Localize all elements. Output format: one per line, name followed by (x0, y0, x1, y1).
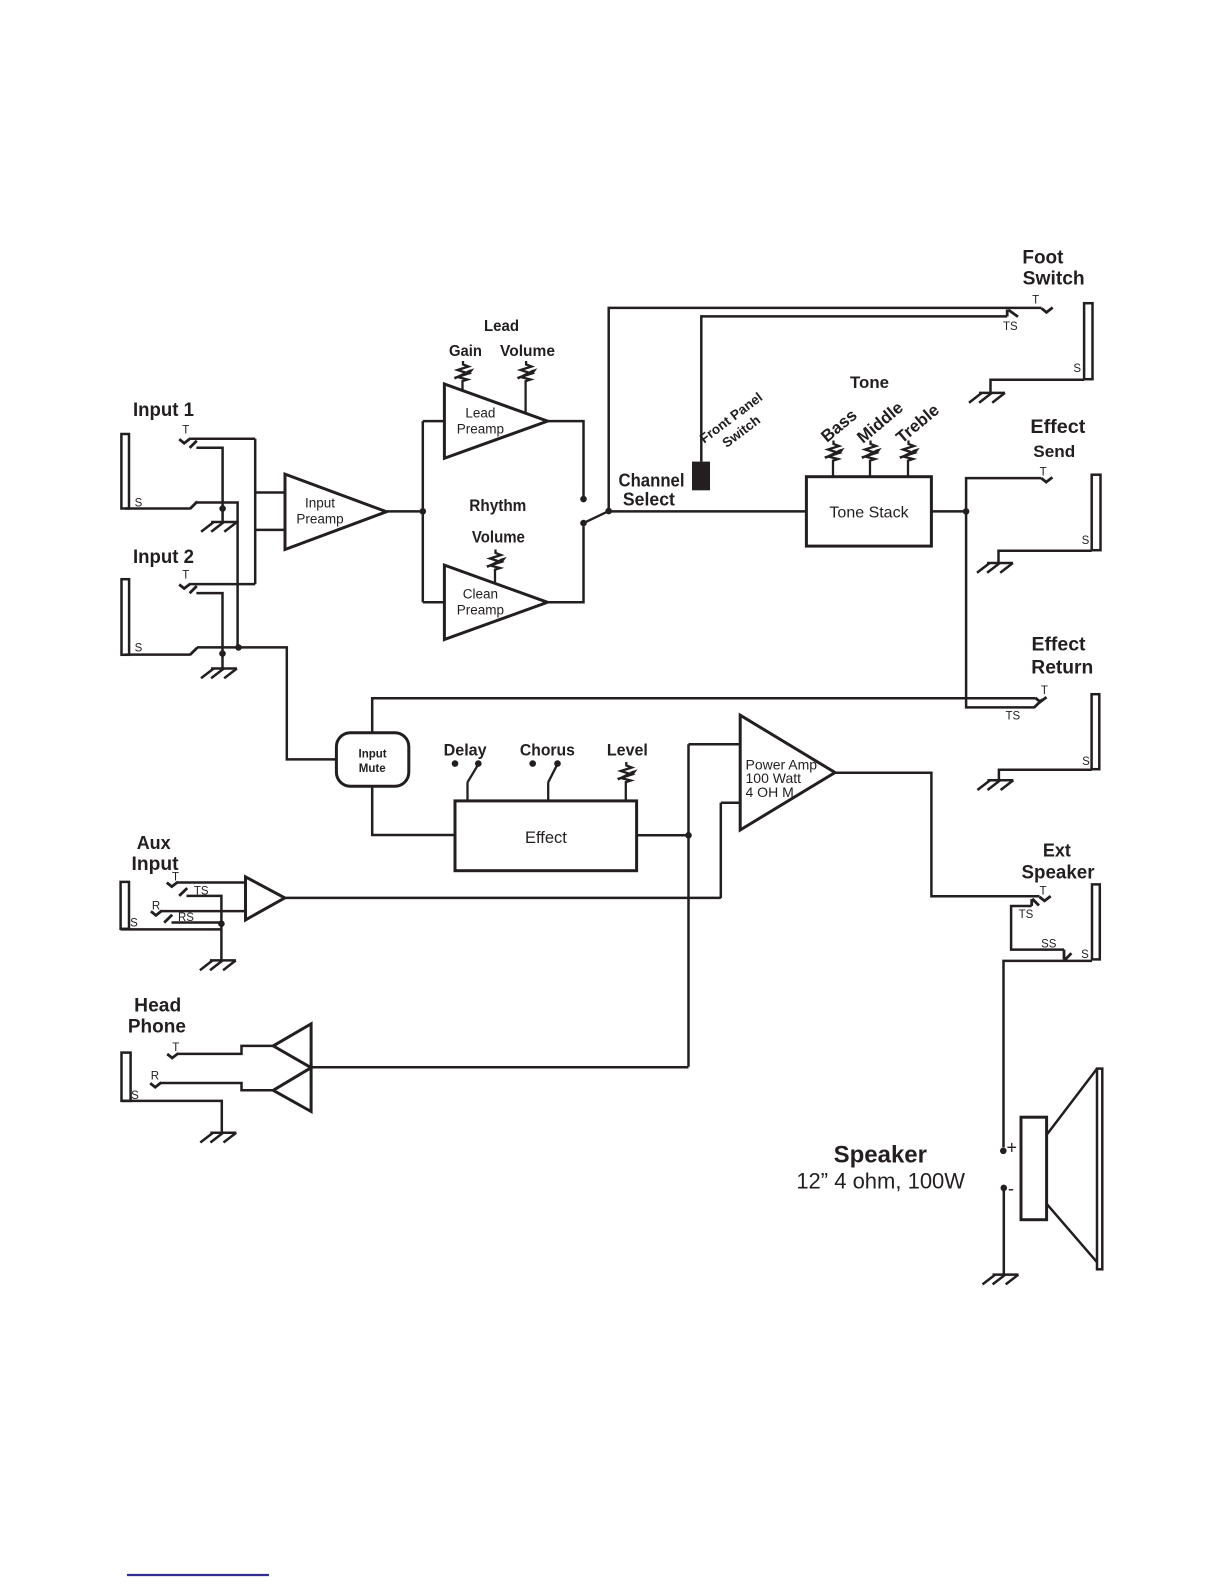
svg-text:TS: TS (1019, 909, 1034, 921)
wire channel select to foot switch tip (609, 308, 1042, 511)
wire effect return tip to input mute (372, 698, 1035, 733)
wire power amp in upper (689, 743, 741, 746)
svg-text:Phone: Phone (128, 1017, 186, 1038)
svg-text:Return: Return (1031, 658, 1093, 679)
svg-text:Volume: Volume (500, 343, 555, 360)
op-amp U4 power amp (740, 715, 835, 830)
wire effect out (637, 834, 689, 837)
switch SW3 chorus contact right (554, 760, 561, 767)
wire J1 tip shunt to ground (196, 448, 222, 509)
wire J1 sleeve (125, 507, 190, 510)
contact hook J3 tip (1042, 308, 1053, 313)
wire power amp in lower (721, 801, 740, 804)
wire J6 tip to aux amp (178, 881, 246, 884)
potentiometer R lead volume (518, 361, 534, 413)
wire signal bus vertical (687, 744, 690, 1067)
contact hook J7 ring (150, 1082, 161, 1087)
wire J2 sleeve switch to input mute (197, 647, 336, 759)
svg-text:Select: Select (623, 490, 675, 510)
switch SW1 channel select contact upper (580, 496, 587, 503)
svg-text:Input 1: Input 1 (133, 400, 194, 421)
wire speaker minus to ground (1003, 1191, 1006, 1275)
potentiometer R rhythm volume (487, 550, 503, 584)
op-amp U3 clean preamp (444, 565, 547, 639)
wire aux bus vertical (720, 803, 723, 898)
wire aux amp out (285, 897, 721, 900)
wire J6 sleeve (121, 928, 222, 931)
junction J1 sleeve-ground (219, 505, 226, 512)
switch SW3 chorus contact left (529, 760, 536, 767)
svg-text:Preamp: Preamp (457, 603, 504, 618)
jack body J7 head phone (122, 1053, 131, 1101)
contact hook J7 tip (167, 1053, 178, 1058)
ground (aux input) (200, 960, 236, 970)
svg-text:S: S (1073, 363, 1081, 375)
contact leaf J2 tip shunt (190, 586, 197, 593)
wire channel select to tone stack (609, 510, 807, 513)
contact leaf J6 tip switch (179, 888, 187, 896)
jack body J6 aux input (121, 882, 129, 929)
junction J2 sleeve-ground (219, 650, 226, 657)
svg-text:Preamp: Preamp (457, 421, 504, 436)
potentiometer R gain (455, 361, 471, 391)
svg-text:Input 2: Input 2 (133, 547, 194, 568)
switch SW1 channel select contact lower (580, 520, 587, 527)
svg-text:Bass: Bass (817, 405, 860, 446)
junction sleeve switches join (235, 644, 242, 651)
wire J3 sleeve (991, 380, 1085, 393)
wire front panel switch to foot switch TS (701, 316, 1007, 461)
svg-text:Effect: Effect (1030, 417, 1086, 438)
svg-text:T: T (1032, 295, 1039, 307)
svg-text:S: S (135, 643, 143, 655)
wire tone stack out (931, 510, 966, 513)
op-amp U7 headphone driver lower (273, 1068, 311, 1112)
svg-text:Head: Head (134, 996, 181, 1017)
svg-text:4 OH M: 4 OH M (746, 784, 794, 800)
contact leaf J2 sleeve switch (190, 648, 197, 655)
wire J2 tip shunt to ground (196, 593, 222, 654)
junction tone stack out node (963, 508, 970, 515)
svg-text:Lead: Lead (484, 318, 519, 335)
wire clean preamp out (548, 526, 584, 602)
front panel switch button (692, 462, 710, 491)
wire J6 TS to junction (187, 896, 222, 924)
jack body J3 foot switch (1084, 303, 1092, 379)
speaker LS1 cone mouth (1097, 1069, 1102, 1270)
switch SW1 lever (584, 511, 609, 523)
potentiometer R bass (825, 441, 841, 477)
svg-text:Preamp: Preamp (296, 511, 343, 526)
svg-text:+: + (1007, 1138, 1018, 1158)
wire J8 sleeve to speaker plus (1004, 961, 1093, 1147)
svg-text:Switch: Switch (1023, 269, 1085, 290)
contact leaf J6 ring switch (164, 915, 172, 923)
svg-text:Level: Level (607, 742, 648, 760)
wire J8 TS to SS (1011, 906, 1064, 950)
ground (input 2) (201, 669, 237, 679)
switch SW2 delay contact left (452, 760, 459, 767)
wire J2 ground stem (221, 654, 224, 669)
wire input mute to effect (372, 786, 455, 835)
contact hook J8 tip (1040, 896, 1051, 901)
svg-text:Clean: Clean (463, 587, 498, 602)
svg-text:S: S (130, 918, 138, 930)
contact hook J5 tip (1035, 697, 1046, 702)
svg-text:Input: Input (359, 749, 387, 761)
wire J7 ring wire (161, 1083, 273, 1090)
jack body J2 Input 2 (122, 579, 130, 655)
footer rule (127, 1574, 269, 1576)
svg-text:S: S (1081, 949, 1089, 961)
svg-text:Effect: Effect (1032, 635, 1087, 656)
svg-text:T: T (1039, 886, 1046, 898)
wire J2 sleeve (125, 653, 190, 656)
wire lead preamp in stub (423, 420, 445, 423)
junction speaker plus terminal (1000, 1148, 1007, 1155)
junction preamp out split (420, 508, 427, 515)
junction effect out node (685, 832, 692, 839)
wire tone stack to effect send tip (966, 478, 1041, 511)
svg-text:T: T (172, 1042, 179, 1054)
potentiometer R level (618, 762, 634, 801)
label Front Panel Switch (697, 389, 776, 459)
switch SW3 chorus lever and stem (548, 766, 556, 801)
switch SW2 delay contact right (475, 760, 482, 767)
contact leaf J8 sleeve switch (1064, 950, 1071, 961)
svg-text:Send: Send (1033, 442, 1075, 461)
junction aux switch junction (218, 920, 225, 927)
ground (effect return) (977, 780, 1013, 790)
potentiometer R middle (862, 441, 878, 477)
block tone stack (806, 477, 931, 546)
svg-text:Delay: Delay (444, 742, 488, 760)
wire J5 sleeve (999, 770, 1092, 781)
wire aux junction to ground (220, 924, 223, 961)
wire J4 sleeve (999, 551, 1092, 563)
speaker LS1 driver (1021, 1117, 1047, 1220)
contact hook J6 tip (167, 882, 178, 887)
svg-text:Gain: Gain (449, 343, 482, 360)
svg-text:Tone: Tone (850, 373, 889, 392)
op-amp U2 lead preamp (444, 384, 547, 458)
wire J2 tip to node (190, 583, 255, 586)
jack body J8 ext speaker (1092, 884, 1100, 959)
svg-text:S: S (1082, 756, 1090, 768)
svg-text:Channel: Channel (619, 471, 685, 491)
wire J7 sleeve (122, 1101, 222, 1133)
switch SW2 delay lever and stem (468, 766, 478, 801)
contact leaf J5 tip switch (1034, 699, 1043, 707)
svg-text:S: S (1082, 535, 1090, 547)
svg-text:Chorus: Chorus (520, 742, 575, 760)
svg-text:Tone Stack: Tone Stack (829, 505, 909, 522)
op-amp U1 input preamp (285, 474, 386, 549)
contact hook J4 tip (1041, 477, 1052, 482)
contact hook J6 ring (151, 911, 162, 916)
jack body J4 effect send (1092, 475, 1101, 551)
svg-text:Input: Input (305, 496, 335, 511)
jack body J5 effect return (1092, 694, 1100, 769)
op-amp U5 aux buffer (246, 877, 285, 920)
svg-text:Speaker: Speaker (1022, 863, 1096, 884)
wire input preamp in upper (255, 491, 285, 494)
svg-text:Lead: Lead (465, 406, 495, 421)
ground (speaker) (983, 1275, 1019, 1285)
wire input preamp out (386, 510, 422, 513)
wire J6 RS to junction (172, 921, 222, 924)
svg-text:RS: RS (178, 912, 194, 924)
svg-text:TS: TS (194, 885, 209, 897)
svg-text:Rhythm: Rhythm (469, 496, 526, 515)
op-amp U6 headphone driver upper (273, 1024, 311, 1068)
contact hook J2 tip (179, 584, 190, 589)
svg-text:Effect: Effect (525, 829, 567, 847)
potentiometer R treble (900, 441, 916, 477)
svg-text:Mute: Mute (359, 763, 386, 775)
contact hook J1 tip (179, 438, 190, 443)
svg-text:T: T (1040, 467, 1047, 479)
svg-text:Ext: Ext (1043, 841, 1071, 861)
block effect (455, 801, 637, 871)
svg-text:SS: SS (1041, 938, 1057, 950)
svg-text:R: R (152, 901, 160, 913)
svg-text:12” 4 ohm, 100W: 12” 4 ohm, 100W (796, 1168, 965, 1193)
contact leaf J8 tip switch (1032, 899, 1039, 906)
svg-text:R: R (151, 1071, 159, 1083)
block input mute (336, 733, 408, 787)
wire J1 sleeve switch to J2 sleeve switch (197, 503, 238, 648)
wire J7 tip wire (178, 1046, 273, 1054)
wire J1 ground stem (221, 509, 224, 522)
junction speaker minus terminal (1001, 1185, 1008, 1192)
ground (effect send) (977, 563, 1013, 573)
svg-text:T: T (1041, 685, 1048, 697)
wire power amp out to ext speaker (835, 773, 1040, 896)
svg-text:Speaker: Speaker (834, 1141, 927, 1168)
ground (input 1) (201, 522, 237, 532)
svg-text:Aux: Aux (137, 832, 172, 853)
wire clean preamp in stub (423, 601, 445, 604)
wire inputs bus vertical (254, 439, 257, 584)
ground (head phone) (200, 1133, 236, 1143)
svg-text:Foot: Foot (1022, 248, 1064, 269)
wire tone stack to effect return TS (966, 511, 1034, 707)
wire preamp split vertical (422, 421, 425, 602)
wire lead preamp out (548, 421, 584, 496)
jack body J1 Input 1 (121, 434, 129, 509)
wire input preamp in lower (255, 529, 285, 532)
svg-text:T: T (182, 570, 189, 582)
svg-text:TS: TS (1005, 711, 1020, 723)
wire J6 ring to aux amp (162, 910, 246, 913)
wire headphone feed (311, 1066, 688, 1069)
speaker LS1 cone (1047, 1069, 1097, 1263)
svg-text:TS: TS (1003, 321, 1018, 333)
contact leaf J1 sleeve switch (190, 502, 197, 509)
contact leaf J1 tip shunt (190, 441, 197, 448)
junction channel select node (605, 508, 612, 515)
svg-text:-: - (1008, 1179, 1014, 1199)
contact leaf J3 tip switch (1007, 310, 1018, 317)
svg-text:Volume: Volume (472, 527, 525, 546)
ground (foot switch) (969, 393, 1005, 403)
wire J1 tip to node (190, 438, 255, 441)
svg-text:T: T (182, 425, 189, 437)
